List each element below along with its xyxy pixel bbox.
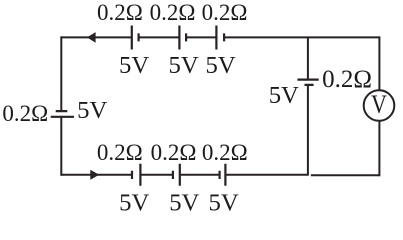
svg-text:0.2Ω: 0.2Ω bbox=[150, 0, 196, 25]
svg-text:5V: 5V bbox=[169, 52, 199, 79]
svg-text:0.2Ω: 0.2Ω bbox=[97, 0, 143, 25]
svg-text:5V: 5V bbox=[206, 52, 236, 79]
svg-text:5V: 5V bbox=[209, 190, 239, 217]
svg-text:5V: 5V bbox=[77, 97, 107, 124]
svg-text:0.2Ω: 0.2Ω bbox=[2, 101, 48, 126]
svg-text:5V: 5V bbox=[169, 190, 199, 217]
svg-text:0.2Ω: 0.2Ω bbox=[322, 66, 372, 93]
svg-text:V: V bbox=[371, 90, 387, 119]
svg-text:0.2Ω: 0.2Ω bbox=[97, 140, 143, 165]
svg-text:0.2Ω: 0.2Ω bbox=[202, 0, 248, 25]
svg-text:5V: 5V bbox=[269, 82, 299, 109]
svg-text:5V: 5V bbox=[119, 52, 149, 79]
svg-text:0.2Ω: 0.2Ω bbox=[151, 140, 197, 165]
svg-text:0.2Ω: 0.2Ω bbox=[202, 140, 248, 165]
svg-text:5V: 5V bbox=[119, 190, 149, 217]
